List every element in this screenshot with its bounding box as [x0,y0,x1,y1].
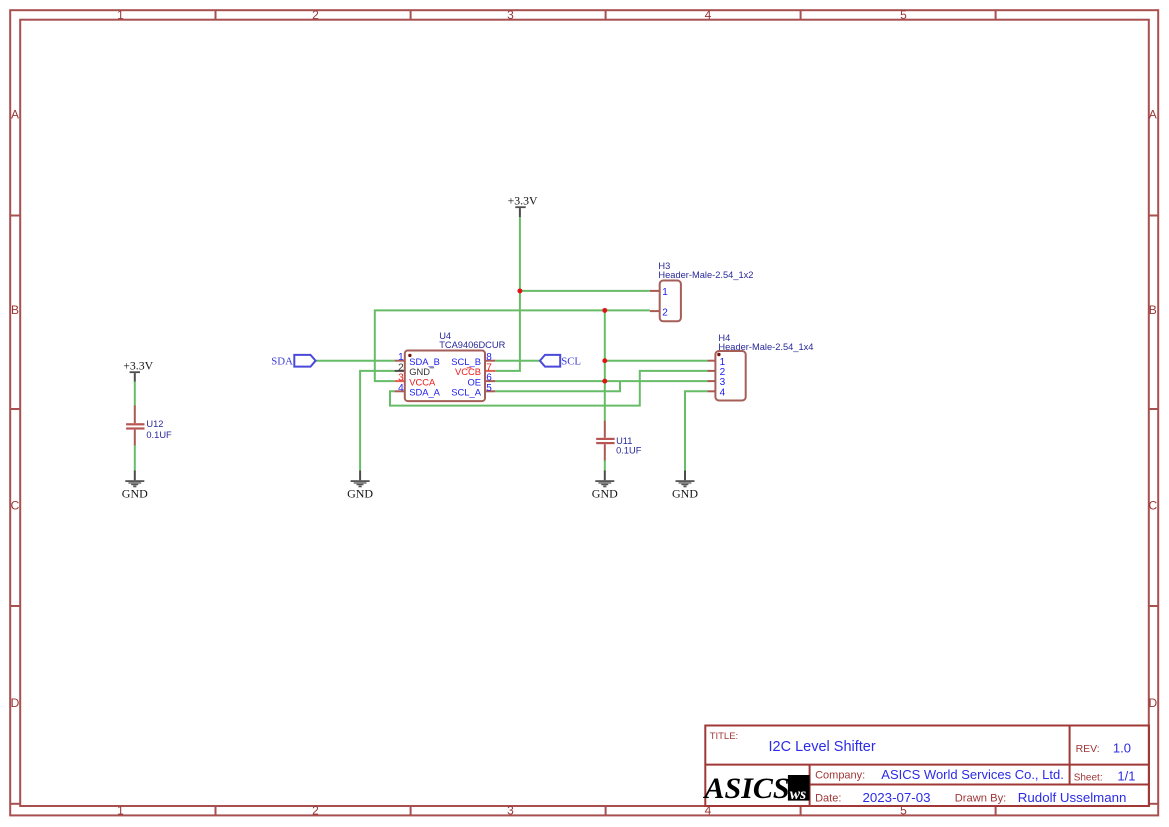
svg-text:TITLE:: TITLE: [710,731,739,742]
svg-text:Header-Male-2.54_1x2: Header-Male-2.54_1x2 [658,270,753,280]
svg-text:4: 4 [720,387,726,398]
svg-text:Sheet:: Sheet: [1074,773,1103,784]
svg-text:Date:: Date: [815,792,841,804]
svg-text:3: 3 [507,8,514,22]
svg-text:Company:: Company: [815,770,865,782]
svg-text:+3.3V: +3.3V [508,194,538,208]
svg-text:ws: ws [790,786,806,803]
svg-text:D: D [1148,696,1157,710]
svg-text:4: 4 [398,383,404,394]
svg-text:U12: U12 [146,419,163,429]
svg-text:U11: U11 [616,436,632,446]
svg-text:GND: GND [122,486,148,500]
svg-text:Drawn By:: Drawn By: [955,792,1007,804]
svg-text:SDA: SDA [271,355,293,367]
svg-text:1: 1 [662,287,668,298]
svg-text:2023-07-03: 2023-07-03 [863,790,931,805]
svg-text:Rudolf Usselmann: Rudolf Usselmann [1018,790,1127,805]
svg-text:REV:: REV: [1076,743,1100,755]
svg-text:I2C Level Shifter: I2C Level Shifter [769,739,876,755]
svg-text:SCL: SCL [561,355,581,367]
svg-text:5: 5 [900,8,907,22]
svg-text:D: D [11,696,20,710]
svg-text:C: C [11,499,20,513]
svg-text:1.0: 1.0 [1113,740,1131,755]
svg-text:SDA_A: SDA_A [409,387,440,398]
svg-text:0.1UF: 0.1UF [146,430,172,440]
svg-text:A: A [1149,108,1157,122]
svg-text:SCL_A: SCL_A [451,387,481,398]
svg-text:1: 1 [117,8,124,22]
svg-text:1/1: 1/1 [1117,769,1135,784]
svg-text:2: 2 [662,307,668,318]
svg-text:ASICS: ASICS [703,772,790,805]
svg-text:A: A [11,108,19,122]
svg-text:ASICS World Services Co., Ltd.: ASICS World Services Co., Ltd. [881,767,1064,782]
svg-text:2: 2 [312,803,319,817]
svg-text:3: 3 [507,803,514,817]
svg-text:C: C [1148,499,1157,513]
svg-text:GND: GND [347,486,373,500]
svg-text:5: 5 [486,383,492,394]
svg-text:2: 2 [312,8,319,22]
svg-text:+3.3V: +3.3V [123,358,153,372]
svg-text:Header-Male-2.54_1x4: Header-Male-2.54_1x4 [718,342,813,352]
svg-text:0.1UF: 0.1UF [616,446,642,456]
svg-text:GND: GND [672,486,698,500]
svg-text:1: 1 [117,803,124,817]
svg-text:GND: GND [592,486,618,500]
svg-text:B: B [11,303,19,317]
svg-text:B: B [1149,303,1157,317]
svg-text:4: 4 [705,8,712,22]
svg-text:TCA9406DCUR: TCA9406DCUR [439,340,505,350]
